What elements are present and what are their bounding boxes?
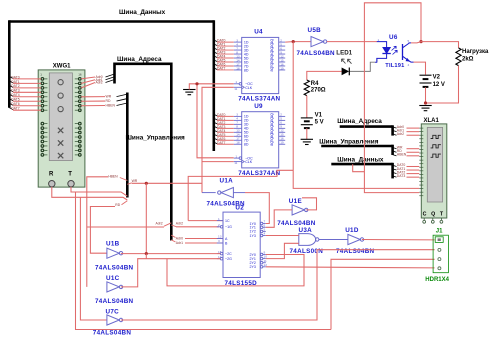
data bus (Шина_Данных) trunk (9, 20, 214, 23)
wires WR,RD,HBEN to XLA1 (393, 145, 420, 156)
XWG1 terminal R (49, 172, 55, 187)
svg-text:U5B: U5B (308, 27, 322, 34)
svg-text:HBEN: HBEN (106, 104, 116, 108)
net Adr1 from address bus to U2 B (171, 240, 223, 245)
LED LED1 indicator (342, 59, 352, 75)
svg-text:~1G: ~1G (225, 225, 232, 229)
svg-text:Шина_Данных: Шина_Данных (119, 9, 166, 16)
svg-text:Шина_Адреса: Шина_Адреса (337, 118, 382, 125)
svg-text:J1: J1 (436, 229, 443, 235)
svg-text:DAT1: DAT1 (11, 80, 20, 84)
svg-text:74ALS04BN: 74ALS04BN (277, 220, 316, 227)
svg-text:19: 19 (280, 66, 284, 70)
svg-text:8D: 8D (244, 68, 249, 72)
svg-text:12 V: 12 V (433, 82, 445, 88)
octal D flip-flop U4 74ALS374AN (234, 37, 286, 93)
wires DAT0-7 from data bus to U4 inputs (214, 39, 234, 71)
control bus (Шина_Управления) trunk (126, 93, 129, 198)
NAND gate U3A 74ALS00N (299, 234, 319, 246)
wire bottom run (T) to J1 pin 3 (331, 259, 435, 329)
svg-text:11: 11 (234, 161, 237, 165)
svg-text:1: 1 (235, 154, 237, 158)
inverter U1B 74ALS04BN (107, 248, 119, 258)
svg-text:Adr2: Adr2 (156, 222, 163, 226)
net Adr0 from address bus to U2 A (171, 235, 223, 240)
load labels (462, 49, 489, 63)
svg-text:WR: WR (132, 179, 138, 183)
resistor R4 270Ω (304, 80, 309, 96)
svg-text:270Ω: 270Ω (311, 88, 326, 94)
wire WR junction down to gate output junction (145, 183, 147, 253)
svg-text:DAT4: DAT4 (11, 93, 20, 97)
junction collector node (419, 40, 422, 43)
wire collector node to load resistor (421, 42, 459, 48)
wire U1D output to J1 pin 1 (362, 239, 435, 241)
wire XWG1 terminal T to bottom run and control bus (71, 187, 331, 330)
svg-text:18: 18 (236, 141, 240, 145)
svg-text:DAT7: DAT7 (11, 107, 20, 111)
wire XWG1 terminal R to U7C input and control bus (52, 187, 128, 320)
svg-text:1: 1 (218, 217, 220, 221)
ground symbol below V2 (419, 106, 431, 111)
wire R4 to battery V1 (306, 96, 308, 118)
wire collector probe loop over U6 (364, 3, 421, 42)
battery V2 12V (420, 75, 432, 87)
svg-text:11: 11 (234, 87, 237, 91)
svg-text:Шина_Управления: Шина_Управления (126, 135, 186, 142)
V2 labels (433, 75, 445, 89)
svg-text:5 V: 5 V (315, 119, 324, 125)
svg-text:Adr2: Adr2 (176, 222, 183, 226)
svg-text:19: 19 (280, 141, 284, 145)
svg-text:Шина_Управления: Шина_Управления (319, 139, 379, 146)
svg-text:Q: Q (431, 212, 435, 218)
svg-text:TIL191: TIL191 (385, 63, 404, 69)
battery V1 5V (301, 118, 313, 128)
svg-text:U7C: U7C (106, 308, 120, 315)
svg-text:Adr2: Adr2 (96, 81, 103, 85)
svg-text:74ALS04BN: 74ALS04BN (95, 265, 134, 272)
svg-text:U1E: U1E (289, 198, 302, 205)
inverter U7C 74ALS04BN (107, 315, 119, 325)
R4 labels (311, 81, 326, 94)
wires DAT0-3 to XLA1 (393, 163, 420, 178)
svg-text:2kΩ: 2kΩ (462, 57, 474, 63)
svg-text:DAT2: DAT2 (11, 84, 20, 88)
wire WR branch to XLA1 and U2 1C (188, 170, 293, 220)
XWG1 terminal T (68, 172, 74, 187)
svg-text:Шина_Данных: Шина_Данных (337, 157, 384, 164)
svg-text:DAT7: DAT7 (217, 67, 226, 71)
wire battery V1 bottom to ground (306, 128, 308, 139)
svg-text:U4: U4 (254, 29, 263, 36)
svg-text:XWG1: XWG1 (53, 63, 71, 69)
svg-text:16: 16 (78, 72, 82, 76)
wire U2 1Y0 to U1A input (233, 193, 269, 224)
svg-text:CLK: CLK (245, 86, 253, 90)
svg-text:8Q: 8Q (270, 66, 274, 71)
svg-text:HBEN: HBEN (397, 153, 407, 157)
ground symbol near U4/U9 OC pins (183, 90, 195, 95)
inverter U1D 74ALS04BN (348, 234, 360, 244)
svg-text:1C: 1C (225, 219, 230, 223)
wire U1B output to U2 ~2C (121, 253, 220, 255)
svg-text:8Q: 8Q (270, 141, 274, 146)
svg-text:LED1: LED1 (336, 50, 352, 57)
net label WR with wire to U1A output and 1C strobe (127, 179, 202, 184)
svg-text:C: C (423, 212, 427, 218)
logic analyzer XLA1 (419, 124, 447, 223)
svg-text:U1B: U1B (106, 240, 120, 247)
svg-text:U1D: U1D (345, 227, 359, 234)
svg-text:1Y3: 1Y3 (250, 234, 256, 238)
svg-text:DAT5: DAT5 (11, 98, 20, 102)
wire U7C output to J1 pin 2 (121, 250, 435, 320)
svg-text:18: 18 (236, 66, 240, 70)
wire battery V2 bottom to ground (425, 87, 427, 103)
svg-text:4: 4 (408, 63, 410, 67)
word generator XWG1 (38, 70, 85, 187)
wire U3A output to U1D input (319, 239, 348, 241)
optocoupler U6 TIL191 (375, 42, 413, 63)
svg-text:V1: V1 (315, 113, 323, 119)
inverter U1E 74ALS04BN (292, 205, 304, 215)
svg-text:2: 2 (218, 223, 220, 227)
wire U2 1Y1 to U1E input (266, 210, 292, 227)
wires WR,RD,HBEN from XWG1 to control bus (81, 94, 127, 107)
bus callout Шина_Управления (right) (321, 145, 392, 148)
svg-text:HBEN: HBEN (108, 174, 118, 178)
svg-text:8D: 8D (244, 143, 249, 147)
wire emitter to battery V2 top (414, 62, 426, 75)
svg-text:U1A: U1A (220, 178, 234, 185)
svg-text:74ALS04BN: 74ALS04BN (95, 298, 134, 305)
wire U2 2Y1 to U3A input B (266, 243, 299, 258)
net Adr2 crossing address bus to U2 ~1G (87, 222, 219, 227)
wire U4 1Q output to U5B input (285, 41, 311, 44)
svg-text:Adr0: Adr0 (176, 237, 183, 241)
svg-text:5: 5 (408, 39, 410, 43)
svg-text:R: R (49, 172, 54, 178)
resistor Нагрузка 2kΩ (load) (456, 48, 461, 66)
wire U1C output to U2 ~2G (121, 259, 220, 287)
svg-text:1: 1 (235, 80, 237, 84)
net label HBEN with wire to U1B/U1C input column (87, 174, 128, 287)
svg-text:U1C: U1C (106, 275, 120, 282)
wire ground to U4 ~OC and U9 ~OC (189, 84, 233, 158)
svg-text:DAT0: DAT0 (11, 75, 20, 79)
wires Adr0-Adr2 from XWG1 to address bus (81, 74, 114, 88)
wires DAT0-7 from data bus to U9 inputs (214, 113, 234, 145)
wire cathode return through LED1 to R4 (307, 62, 375, 80)
svg-text:DAT3: DAT3 (397, 174, 406, 178)
wires DAT0-DAT7 from data bus to XWG1 inputs (9, 75, 41, 110)
svg-text:Adr2: Adr2 (397, 132, 404, 136)
svg-text:U6: U6 (389, 34, 398, 41)
wire XLA1 probe from collector node vertical (364, 42, 419, 193)
svg-text:~2G: ~2G (225, 257, 232, 261)
wire U4 1Q node down to XLA1 row (293, 42, 419, 189)
svg-text:74ALS04BN: 74ALS04BN (297, 50, 336, 57)
svg-text:V2: V2 (433, 75, 441, 81)
wire U2 2Y0 feedback to ~2G net (167, 255, 304, 286)
svg-text:4: 4 (264, 232, 266, 236)
net label RD with wire to U1B input (90, 201, 127, 253)
svg-text:R4: R4 (311, 81, 319, 87)
svg-text:Шина_Адреса: Шина_Адреса (117, 56, 162, 63)
svg-text:DAT3: DAT3 (11, 89, 20, 93)
wire data bus stub to probe vertical (353, 164, 365, 172)
svg-text:RD: RD (115, 203, 120, 207)
svg-text:U9: U9 (254, 103, 263, 110)
svg-text:DAT7: DAT7 (217, 141, 226, 145)
junction U5B input / XLA1 probe (292, 40, 295, 43)
inverter U1A 74ALS04BN (mirrored) (221, 188, 233, 198)
svg-text:HDR1X4: HDR1X4 (425, 277, 449, 283)
junction ground node V2 (424, 101, 427, 104)
svg-text:3: 3 (218, 239, 220, 243)
svg-text:RD: RD (106, 99, 111, 103)
svg-text:XLA1: XLA1 (424, 118, 440, 124)
svg-text:74ALS04BN: 74ALS04BN (93, 329, 132, 336)
svg-text:74ALS04BN: 74ALS04BN (336, 248, 375, 255)
svg-text:CLK: CLK (245, 160, 253, 164)
svg-text:1: 1 (378, 38, 380, 42)
junction at ground/OC net (195, 82, 198, 85)
bus callout Шина_Данных (right) (331, 163, 392, 166)
wire U5B output to optocoupler anode (327, 41, 377, 43)
svg-text:DAT6: DAT6 (11, 102, 20, 106)
svg-text:13: 13 (218, 235, 222, 239)
address bus (Шина_Адреса) trunk (115, 62, 172, 65)
svg-text:74ALS00N: 74ALS00N (290, 248, 324, 255)
junction WR net (145, 182, 148, 185)
junction U1B/U1C outputs (145, 252, 148, 255)
ground symbol below V1 (301, 139, 313, 144)
svg-text:~2C: ~2C (225, 252, 232, 256)
svg-text:T: T (68, 172, 72, 178)
svg-text:74ALS04BN: 74ALS04BN (207, 201, 246, 208)
connector J1 HDR1X4 (433, 235, 448, 273)
wire CLK net from U1A output to U4 CLK and U9 CLK (202, 87, 234, 192)
svg-text:WR: WR (106, 95, 112, 99)
wire U1E output hook (302, 198, 317, 210)
inverter U5B 74ALS04BN (311, 37, 323, 47)
svg-text:2: 2 (377, 58, 379, 62)
svg-text:Adr1: Adr1 (176, 241, 183, 245)
wire collector pin to node (411, 42, 421, 43)
wire U2 2Y3 to J1 pin 4 (266, 267, 435, 268)
svg-text:U3A: U3A (299, 227, 313, 234)
bus callout Шина_Адреса (right) (340, 125, 393, 128)
wire U2 1Y3 to U3A input A (266, 235, 299, 237)
U6 pin numbers (377, 38, 410, 67)
decoder U2 74LS155D (217, 212, 267, 277)
octal D flip-flop U9 74ALS374AN (234, 112, 286, 168)
wires Adr0-2 to XLA1 (393, 125, 420, 136)
wire junction to ~2G row (145, 254, 147, 259)
inverter U1C 74ALS04BN (107, 282, 119, 292)
svg-text:74ALS374AN: 74ALS374AN (238, 96, 280, 103)
svg-text:Нагрузка: Нагрузка (462, 49, 489, 55)
V1 labels (315, 113, 324, 126)
wire load bottom to battery negative / ground (426, 66, 459, 103)
svg-text:2Y3: 2Y3 (250, 265, 256, 269)
